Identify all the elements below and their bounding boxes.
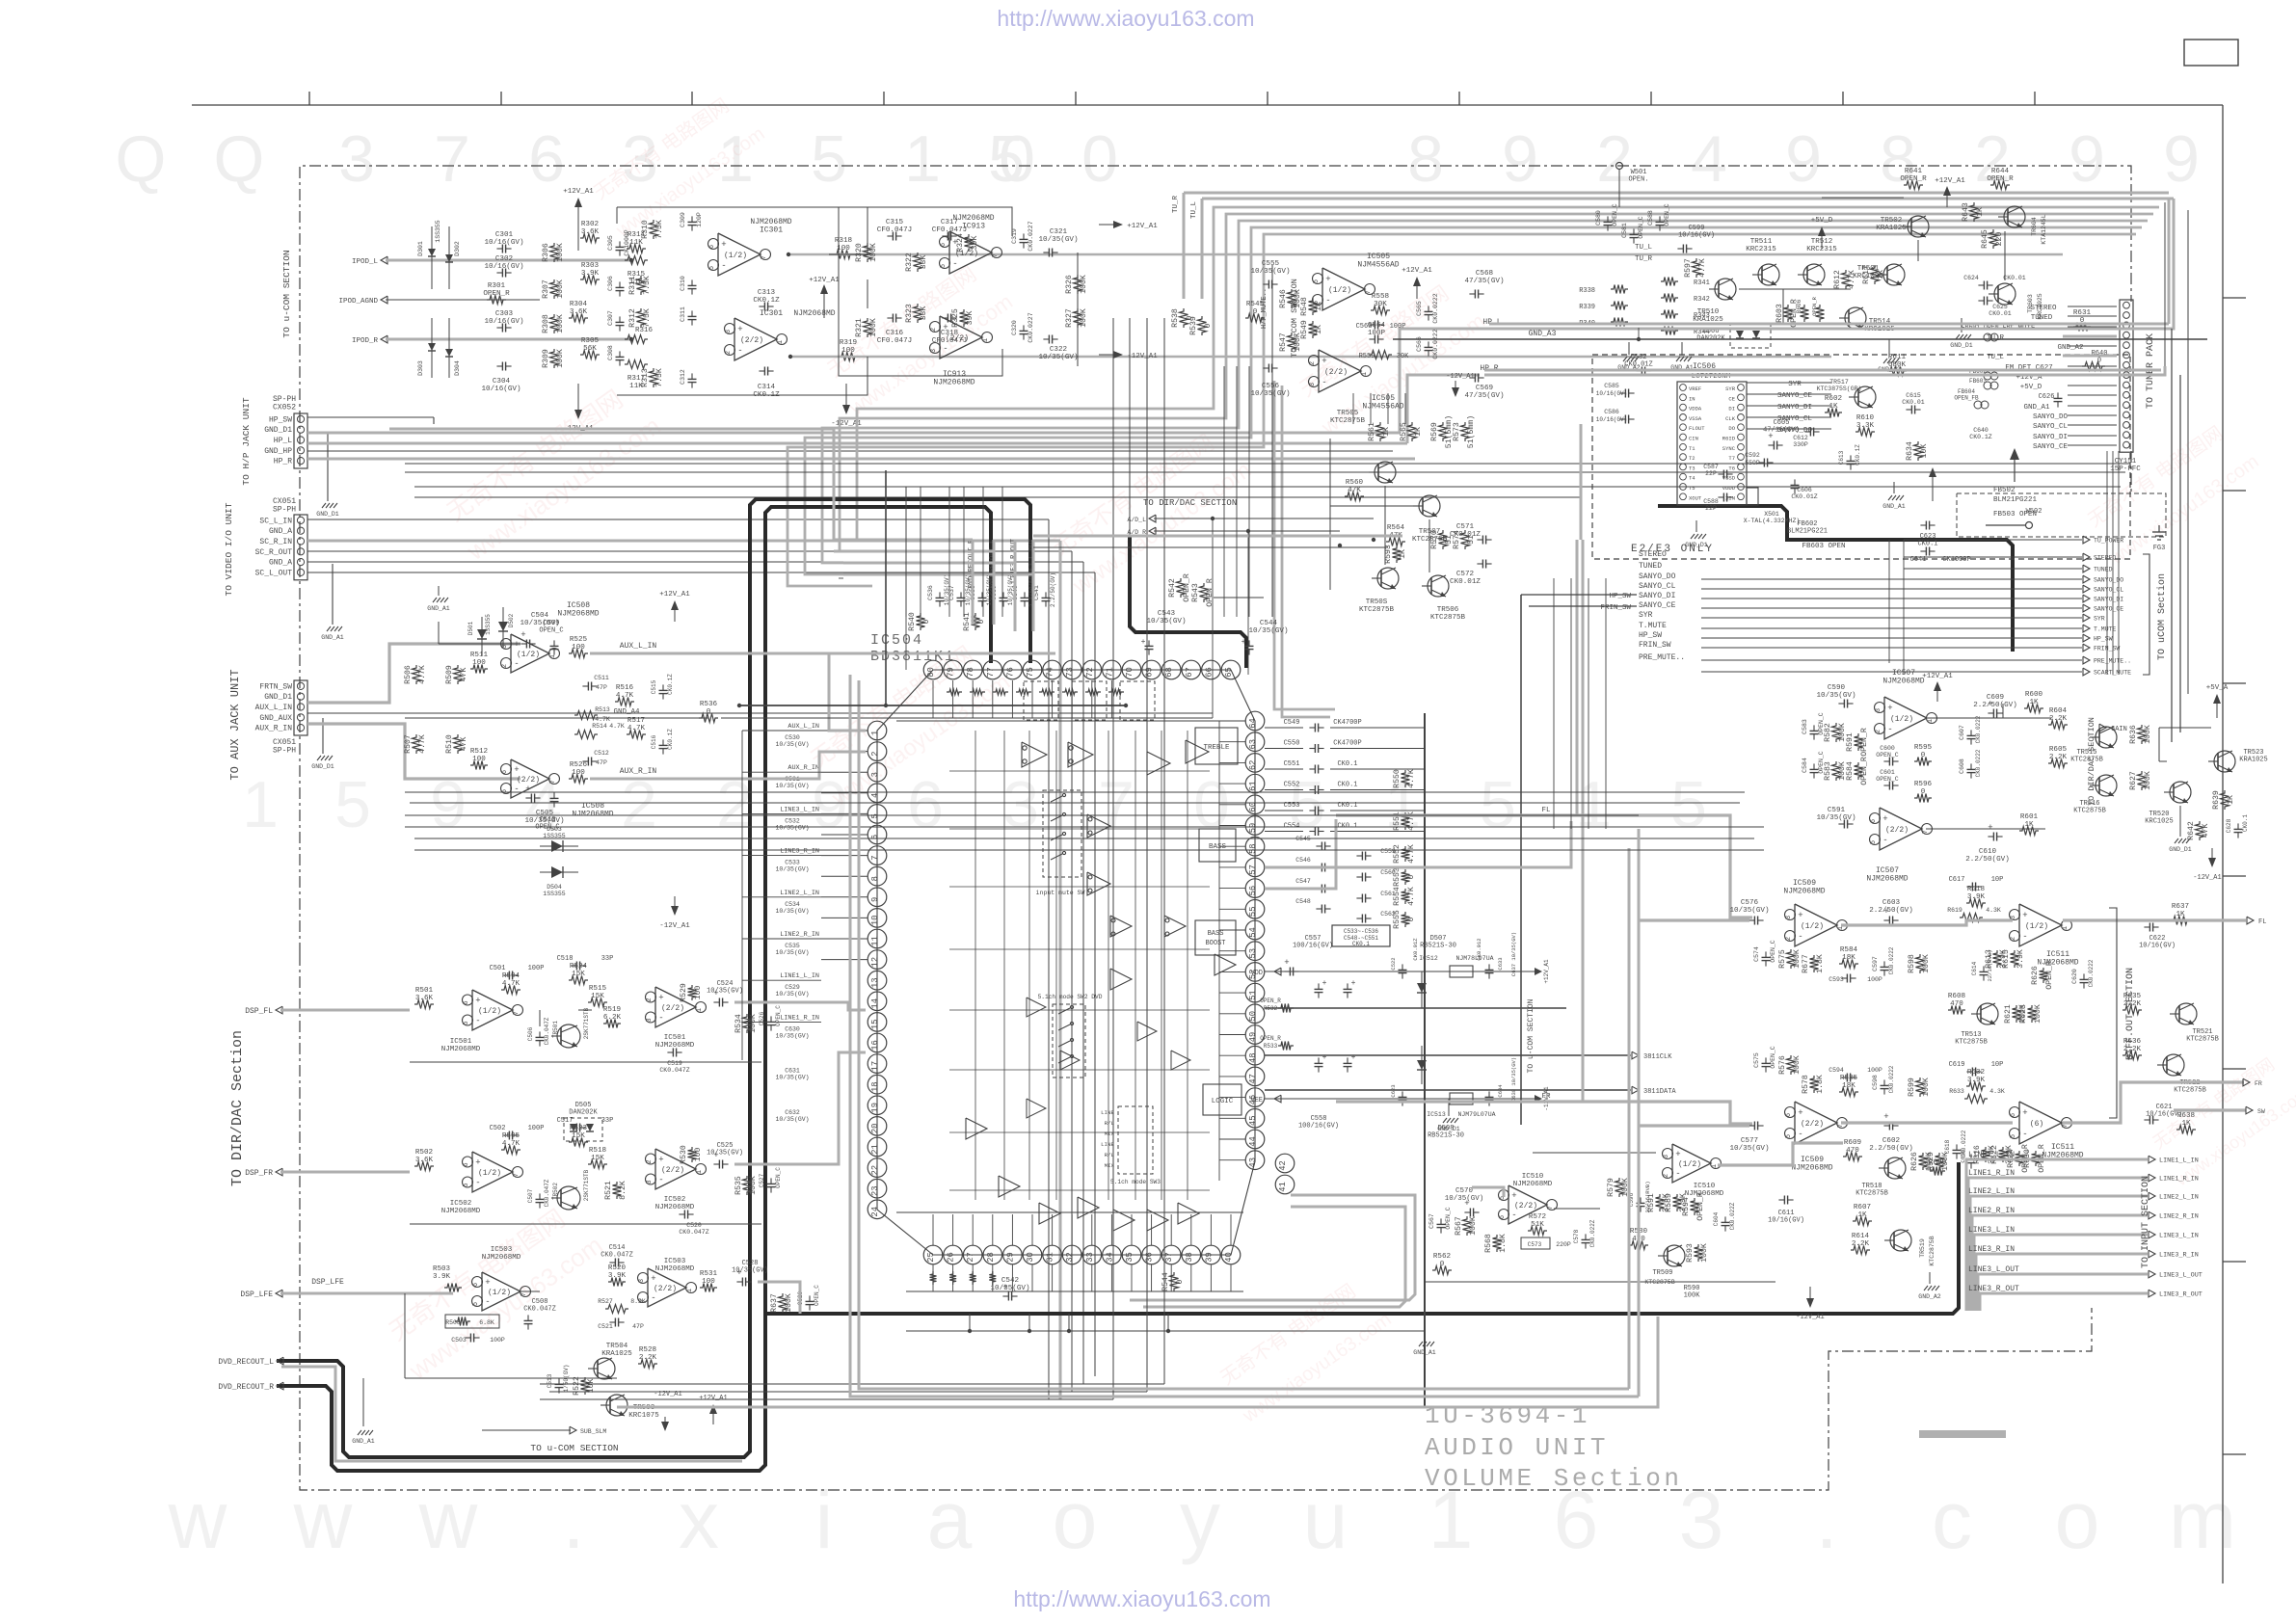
svg-text:-: - [485, 1297, 490, 1307]
svg-text:C533~-C536: C533~-C536 [1344, 928, 1378, 935]
svg-text:27: 27 [966, 1252, 975, 1263]
svg-text:R558: R558 [1372, 293, 1390, 301]
svg-text:R615: R615 [2002, 949, 2011, 969]
svg-text:1K: 1K [1976, 207, 1985, 217]
svg-text:R309: R309 [542, 349, 550, 368]
LINE arrows stack [1966, 1159, 2148, 1311]
svg-text:CK0.022Z: CK0.022Z [1729, 1202, 1736, 1230]
wire GND_HP thin [307, 450, 1393, 452]
svg-text:2: 2 [1596, 122, 1633, 196]
ground GND_A1 below CX051 [332, 564, 334, 625]
svg-text:5: 5 [870, 813, 880, 818]
svg-text:R529: R529 [1927, 1152, 1936, 1171]
svg-text:TO DIR/DAC SECTION: TO DIR/DAC SECTION [2087, 717, 2096, 806]
ground GND_A1 under resistor grid2 [1681, 342, 1683, 355]
svg-text:470: 470 [1950, 1000, 1963, 1008]
svg-text:(2/2): (2/2) [1514, 1202, 1537, 1211]
svg-text:10P: 10P [1991, 876, 2004, 884]
resistor R582 100K [1832, 723, 1841, 742]
svg-text:100K: 100K [1469, 1216, 1478, 1236]
diode D502 1SS355 [502, 607, 504, 648]
svg-text:R604: R604 [2049, 707, 2068, 715]
svg-text:5: 5 [988, 122, 1025, 196]
svg-text:3: 3 [725, 330, 733, 333]
ground GND_A2 bottom right cluster [1929, 1272, 1931, 1284]
svg-text:T4: T4 [1689, 475, 1695, 482]
transistor TR509 KTC2875B [1664, 1245, 1685, 1266]
svg-text:C311: C311 [680, 306, 686, 322]
svg-text:NJM4556AD: NJM4556AD [1362, 403, 1403, 412]
svg-text:DAN202K: DAN202K [569, 1109, 598, 1117]
svg-text:C606: C606 [1797, 487, 1812, 493]
capacitor C601 OPEN_C [1888, 782, 1890, 790]
svg-text:0: 0 [922, 619, 931, 624]
svg-text:100P: 100P [528, 1125, 545, 1132]
wire fr net [410, 1223, 761, 1225]
power -12V_A1 arrow bottom [1809, 1287, 1811, 1303]
svg-text:24: 24 [870, 1207, 880, 1217]
svg-text:C628: C628 [2226, 818, 2232, 833]
svg-text:NJM2068MD: NJM2068MD [482, 1254, 521, 1262]
svg-text:9: 9 [2069, 122, 2105, 196]
wire long verticals right of IC913 [1112, 626, 1114, 1399]
svg-text:CK0.047Z: CK0.047Z [544, 1017, 550, 1045]
resistor R639 1K [2221, 790, 2229, 810]
resistor R326 100K [1074, 275, 1082, 294]
svg-text:10/35(GV): 10/35(GV) [775, 1032, 809, 1039]
resistor R536 0 [699, 714, 718, 723]
svg-text:1.8K: 1.8K [1816, 954, 1825, 973]
svg-text:100K: 100K [1793, 1055, 1802, 1075]
svg-text:R306: R306 [542, 243, 550, 262]
svg-text:CK0.0227: CK0.0227 [1028, 312, 1034, 342]
svg-text:4.7K: 4.7K [609, 723, 625, 730]
resistor R505 4.7K [413, 665, 421, 684]
svg-text:TR509: TR509 [1652, 1269, 1672, 1277]
svg-text:RB521S-30: RB521S-30 [1420, 943, 1456, 950]
svg-text:15K: 15K [591, 993, 604, 1000]
tuner signal rows [2068, 306, 2117, 307]
BASS BOOST box [1195, 920, 1236, 955]
svg-text:100K: 100K [749, 1176, 758, 1195]
resistor R602 1K [1825, 409, 1842, 417]
svg-text:+: + [1887, 704, 1892, 713]
svg-text:KRC1025: KRC1025 [2145, 818, 2173, 826]
svg-text:LINE3_R_OUT: LINE3_R_OUT [1968, 1285, 2019, 1293]
wire dark vertical mid right [1520, 595, 1522, 1125]
svg-text:R597: R597 [1684, 258, 1693, 278]
svg-text:i: i [815, 1475, 834, 1565]
svg-text:6: 6 [907, 768, 944, 841]
resistor R618 3.9K [1966, 899, 1986, 908]
svg-text:C590: C590 [1828, 684, 1846, 692]
svg-text:TR501: TR501 [1857, 265, 1880, 273]
svg-text:R606: R606 [1796, 299, 1802, 313]
bus IPOD_L [386, 259, 631, 262]
svg-text:3: 3 [1785, 916, 1793, 919]
svg-text:R575: R575 [1778, 949, 1787, 969]
svg-text:D502: D502 [508, 613, 515, 627]
bus staircase nest routed [857, 207, 2159, 540]
capacitor C602 2.2/50(GV) [1888, 1122, 1890, 1131]
svg-text:47P: 47P [632, 1323, 644, 1330]
svg-text:15K: 15K [591, 1155, 604, 1162]
svg-text:22/16(RVB): 22/16(RVB) [1987, 949, 1993, 981]
svg-text:5: 5 [2010, 1134, 2017, 1138]
svg-text:C572: C572 [1456, 571, 1475, 578]
svg-text:GND_A1: GND_A1 [1882, 503, 1906, 510]
svg-text:C637 10/35(GV): C637 10/35(GV) [1510, 932, 1517, 976]
resistor R303 3.9K [580, 276, 600, 284]
svg-text:OPEN.: OPEN. [1628, 176, 1648, 184]
svg-text:+: + [485, 1278, 490, 1288]
resistors under bottom pins [930, 1271, 937, 1285]
svg-text:SYR: SYR [1639, 611, 1653, 620]
svg-text:R565: R565 [1400, 422, 1408, 441]
resistor R509 47K [454, 665, 463, 684]
transistor TR518 KTC2875B [1884, 1157, 1906, 1179]
svg-text:TU_L: TU_L [1635, 244, 1653, 252]
svg-text:33K: 33K [920, 306, 928, 321]
svg-text:5: 5 [501, 789, 509, 793]
svg-text:R637: R637 [770, 1293, 779, 1313]
signal arrow SW [2246, 1106, 2253, 1114]
svg-text:C532: C532 [785, 817, 800, 824]
capacitor C583 OPEN_C [1810, 730, 1819, 732]
svg-text:100K: 100K [1684, 1292, 1701, 1300]
svg-text:GND_A2: GND_A2 [2057, 344, 2083, 352]
svg-text:CK0.0222: CK0.0222 [1432, 329, 1439, 359]
svg-text:R307: R307 [542, 279, 550, 299]
svg-text:input mute SW: input mute SW [1036, 890, 1085, 896]
svg-text:100K: 100K [2144, 771, 2152, 790]
connector CX051 5P-PH aux [294, 680, 307, 735]
svg-text:0: 0 [1081, 122, 1118, 196]
IC504 interior horizontal connects [949, 770, 1210, 772]
svg-text:C502: C502 [490, 1125, 506, 1132]
signal arrow DSP_LFE [276, 1290, 282, 1297]
right border line [2222, 105, 2224, 1583]
svg-text:C549: C549 [1284, 719, 1300, 727]
svg-text:C584: C584 [1802, 758, 1808, 773]
svg-text:TR505: TR505 [1337, 410, 1359, 417]
svg-text:R550: R550 [1393, 769, 1402, 788]
svg-text:3.9K: 3.9K [2016, 949, 2025, 969]
resistor R626 OPEN_R label [2040, 968, 2048, 983]
svg-text:KRC2315: KRC2315 [1746, 246, 1776, 253]
svg-text:D304: D304 [454, 360, 461, 376]
svg-text:CK0.012: CK0.012 [1476, 938, 1482, 960]
svg-text:AUX_R_IN: AUX_R_IN [620, 767, 657, 776]
svg-text:SC_R_OUT: SC_R_OUT [255, 548, 293, 557]
IC504 internal circles on triangles [1088, 817, 1092, 821]
IC504 left pin column 1..24 [868, 721, 887, 740]
svg-text:TO DIR/DAC Section: TO DIR/DAC Section [229, 1030, 246, 1186]
svg-text:CK0.047Z: CK0.047Z [601, 1252, 633, 1260]
capacitor C585 10/16(GV) [1624, 389, 1626, 398]
svg-text:2: 2 [870, 751, 880, 756]
svg-text:C578: C578 [1573, 1229, 1580, 1243]
svg-text:CK0.1: CK0.1 [1917, 541, 1937, 548]
capacitor C576 10/35(GV) [1753, 917, 1755, 925]
op-amp IC913 2/2 [940, 316, 982, 359]
svg-text:RB521S-30: RB521S-30 [1428, 1132, 1464, 1140]
svg-text:HP_L: HP_L [274, 437, 292, 445]
resistor R544 0 [1170, 1272, 1179, 1291]
op-amp IC301 2/2 NJM2068MD [734, 318, 777, 360]
svg-text:80: 80 [926, 667, 936, 678]
svg-text:(1/2): (1/2) [2025, 922, 2048, 931]
capacitor C571 CK0.01Z [1482, 536, 1483, 545]
svg-text:+: + [1322, 357, 1326, 366]
svg-text:OPEN_R: OPEN_R [1206, 578, 1215, 607]
svg-text:R612: R612 [1833, 270, 1842, 289]
transistor TR519 KTC2875B [1890, 1230, 1911, 1251]
wire extra horizontals bottom [540, 1383, 1164, 1385]
svg-text:CK0.047Z: CK0.047Z [659, 1067, 689, 1074]
svg-text:4.7K: 4.7K [1698, 258, 1707, 278]
svg-text:R503: R503 [433, 1265, 451, 1273]
capacitor C641 CK1000P [1925, 547, 1927, 556]
svg-text:R569: R569 [1430, 422, 1439, 441]
op-amp IC502 2/2 NJM2068MD [655, 1149, 696, 1189]
svg-text:LINE3_L_OUT: LINE3_L_OUT [2159, 1272, 2203, 1280]
svg-text:7: 7 [513, 1173, 521, 1177]
svg-text:-: - [952, 259, 957, 269]
svg-text:T1: T1 [1689, 445, 1695, 452]
svg-text:R599: R599 [1908, 1078, 1916, 1097]
svg-text:41: 41 [1278, 1182, 1288, 1192]
svg-text:4.7K: 4.7K [1407, 844, 1416, 864]
svg-text:C512: C512 [594, 750, 609, 757]
ecap pair VDD [1315, 988, 1323, 990]
transistor TR517 KTC3875S(GR) [1855, 386, 1876, 408]
uCOM signal rows with arrows [1904, 539, 2082, 541]
svg-text:+: + [658, 994, 663, 1003]
svg-text:FLOUT: FLOUT [1689, 425, 1705, 432]
svg-text:5: 5 [1480, 768, 1516, 841]
transistor TR523 KRA1025 [2214, 751, 2235, 772]
svg-text:51K: 51K [1531, 1221, 1544, 1229]
svg-text:STEREO: STEREO [2030, 305, 2057, 312]
svg-text:D301: D301 [417, 241, 424, 256]
svg-text:R626: R626 [2031, 966, 2040, 985]
svg-text:GND_A1: GND_A1 [1413, 1349, 1436, 1356]
svg-text:TO u-COM SECTION: TO u-COM SECTION [281, 250, 292, 337]
capacitor C563 100P [1374, 321, 1375, 330]
svg-text:GND_A: GND_A [269, 559, 292, 568]
gray marker bar bottom right [1919, 1430, 2006, 1438]
svg-text:R321: R321 [855, 318, 864, 337]
capacitor C566 CK0.0222 [1425, 346, 1433, 348]
wire extra horizontals band mid [405, 814, 1639, 816]
svg-text:2: 2 [1663, 1174, 1670, 1178]
svg-text:LINE1_R_IN: LINE1_R_IN [1968, 1169, 2015, 1178]
svg-text:HP_SW: HP_SW [1639, 631, 1662, 640]
svg-text:C548: C548 [1295, 898, 1311, 905]
svg-text:AUX_L_IN: AUX_L_IN [620, 642, 657, 651]
svg-text:-: - [1887, 725, 1892, 734]
svg-text:C312: C312 [680, 369, 686, 385]
resistor R549 1K [1309, 321, 1318, 338]
svg-text:FG3: FG3 [2153, 545, 2166, 552]
svg-text:NJM4556AD: NJM4556AD [1357, 261, 1399, 270]
svg-text:R318: R318 [835, 237, 853, 245]
svg-text:SW: SW [2257, 1108, 2265, 1115]
capacitor ladder C549-C554 right of IC504 [1265, 727, 1303, 729]
capacitor C625 CK0.01 [1983, 297, 1985, 306]
svg-text:(2/2): (2/2) [1801, 1120, 1824, 1129]
resistor R517 4.7K [627, 731, 646, 739]
resistor R633 4.3K [1964, 1095, 1988, 1104]
resistor R306 100K [550, 243, 559, 262]
power -12V_A1 arrow right [845, 384, 847, 410]
capacitor C604 CK0.022Z [1722, 1221, 1730, 1223]
signal arrow DVD_RECOUT_L [277, 1357, 283, 1365]
svg-text:10/35(GV): 10/35(GV) [775, 783, 809, 789]
wire riser 940 [905, 487, 907, 670]
bottom caps C542 [1007, 1292, 1009, 1301]
resistor R539 0 [1198, 316, 1207, 335]
svg-text:D302: D302 [454, 241, 461, 256]
svg-text:HP_SW: HP_SW [269, 415, 292, 424]
svg-text:R542: R542 [1168, 578, 1177, 598]
svg-text:37: 37 [1164, 1252, 1174, 1263]
svg-text:5: 5 [1670, 768, 1707, 841]
heavy trace ground bus bottom [766, 1162, 1959, 1314]
svg-text:D501: D501 [467, 621, 474, 635]
svg-text:70: 70 [1125, 667, 1135, 678]
capacitor pair C548 C562 [1321, 905, 1322, 914]
svg-text:C568: C568 [1476, 270, 1494, 278]
svg-text:SYR: SYR [2094, 616, 2105, 623]
svg-text:1K: 1K [1857, 1211, 1867, 1219]
svg-text:(2/2): (2/2) [661, 1166, 684, 1175]
svg-text:-12V_A1: -12V_A1 [659, 922, 690, 930]
bus SC vertical bundle down [1048, 519, 1050, 1399]
op-amp IC505 2/2 NJM4556AD [1319, 350, 1361, 392]
signal arrow IPOD_R [381, 335, 387, 343]
svg-text:R325: R325 [951, 308, 960, 328]
op-amp IC508 2/2 NJM2068MD [511, 759, 549, 798]
svg-text:w: w [168, 1475, 227, 1565]
resistor R564 47K [1386, 538, 1405, 546]
capacitor pair C545 C559 [1321, 842, 1322, 851]
power -12V_A1 arrow IC301 bottom [577, 384, 579, 414]
svg-text:2.2/50(GV): 2.2/50(GV) [1973, 702, 2017, 709]
svg-text:62: 62 [1248, 760, 1258, 771]
svg-text:3: 3 [646, 1018, 654, 1022]
resistor R546 100K [1288, 289, 1296, 308]
resistor R316 11K [625, 335, 648, 344]
svg-text:100K: 100K [1922, 1078, 1931, 1097]
resistor R583 100K [1832, 761, 1841, 781]
wire verticals between IC913 and IC505 [1223, 366, 1225, 617]
svg-text:+: + [1675, 1150, 1680, 1159]
svg-text:C632: C632 [785, 1109, 800, 1116]
svg-text:18K: 18K [1842, 1082, 1855, 1090]
diode D303 1SS355 [431, 318, 433, 378]
svg-text:C535: C535 [785, 943, 800, 949]
svg-text:10/35(GV): 10/35(GV) [732, 1267, 768, 1275]
wire VEE row [1265, 1098, 1504, 1100]
capacitor C555 10/35(GV) [1268, 280, 1269, 289]
ground GND_D1 below aux connector [322, 718, 324, 754]
resistor R595 0 [1914, 758, 1932, 766]
svg-text:1K: 1K [2024, 821, 2034, 829]
capacitor C314 CK0.1Z [763, 367, 765, 376]
resistor R315 11K [625, 256, 648, 265]
svg-text:45: 45 [1248, 1116, 1258, 1127]
svg-text:R591: R591 [1846, 732, 1855, 752]
op-amp IC509 2/2 [1795, 1102, 1837, 1144]
svg-text:AUX_L_IN: AUX_L_IN [255, 704, 293, 712]
power +12V_A1 arrow IC913 [1099, 224, 1118, 226]
svg-text:Q: Q [116, 122, 167, 196]
svg-text:+: + [1351, 979, 1356, 988]
svg-text:R538: R538 [1171, 308, 1180, 328]
bus SC lines to right [307, 519, 1049, 520]
svg-text:2.2/50(GV): 2.2/50(GV) [1869, 1145, 1913, 1153]
svg-text:0: 0 [1440, 1261, 1445, 1268]
resistor R561 1K [1376, 422, 1385, 441]
svg-text:C314: C314 [758, 384, 776, 391]
svg-text:C569: C569 [1476, 385, 1494, 392]
svg-text:GND_D1: GND_D1 [316, 511, 339, 518]
signal arrow FR [2243, 1078, 2250, 1086]
svg-text:CY151: CY151 [2115, 458, 2137, 466]
svg-text:17: 17 [870, 1061, 880, 1072]
resistor R541 0 [972, 613, 980, 630]
resistor R626 100K vert [1919, 1153, 1928, 1170]
svg-text:1K: 1K [2029, 699, 2039, 706]
svg-text:+: + [521, 630, 525, 640]
capacitor C597 CK0.0222 [1881, 966, 1889, 968]
svg-text:SC_R_IN: SC_R_IN [259, 538, 292, 546]
svg-text:+: + [1322, 979, 1327, 988]
capacitor C603 2.2/50(GV) [1888, 917, 1890, 925]
svg-text:+12V_A1: +12V_A1 [1127, 223, 1158, 230]
svg-text:100: 100 [694, 986, 703, 1000]
svg-text:OPEN_C: OPEN_C [539, 627, 563, 635]
svg-text:-: - [475, 1179, 480, 1188]
resistor R619 4.3K [1960, 914, 1983, 922]
svg-text:FRIN_SW: FRIN_SW [1639, 641, 1671, 650]
resistor R319 100 [839, 353, 858, 361]
svg-text:0: 0 [707, 708, 711, 716]
svg-text:50: 50 [1248, 1011, 1258, 1022]
capacitor C520 CK0.047Z [683, 1211, 685, 1219]
svg-text:LINE2_L_IN: LINE2_L_IN [1968, 1187, 2015, 1196]
svg-text:1SS355: 1SS355 [435, 220, 441, 243]
svg-text:FR: FR [1541, 1093, 1551, 1101]
resistor R640 0 [2082, 362, 2105, 371]
svg-text:VREF: VREF [1689, 386, 1701, 392]
svg-text:C588: C588 [1647, 210, 1654, 226]
svg-text:7.5K: 7.5K [655, 220, 664, 239]
IC512 NJM78L07UA box [1450, 966, 1473, 977]
diode D302 1SS355 [448, 226, 450, 289]
capacitor C514 CK0.047Z [614, 1259, 616, 1267]
resistor R516 4.7K [615, 698, 634, 706]
svg-text:2: 2 [1309, 361, 1317, 365]
svg-text:10/35(GV): 10/35(GV) [775, 949, 809, 956]
svg-text:OPEN_C: OPEN_C [1876, 752, 1899, 758]
svg-text:R518: R518 [589, 1147, 607, 1155]
resistor R530 100 [688, 1147, 697, 1162]
resistor R535 100K [743, 1176, 752, 1195]
resistor R548 1K [1309, 298, 1318, 315]
